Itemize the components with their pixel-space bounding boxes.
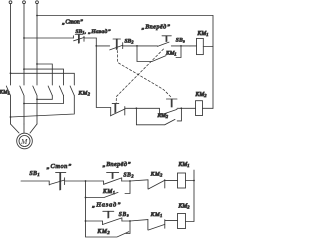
wire motor merge mid xyxy=(23,124,25,133)
wire motor merge left xyxy=(11,124,20,133)
button SB3 bottom (NO) xyxy=(102,221,104,225)
svg-text:„Вперёд”: „Вперёд” xyxy=(142,23,171,30)
svg-text:SВз: SВз xyxy=(119,212,130,218)
aux contact KM2 bottom parallel xyxy=(86,221,131,237)
wire branch B to KM2 pole2 xyxy=(24,69,64,85)
svg-text:КМ2: КМ2 xyxy=(97,229,111,235)
phase terminal L1 xyxy=(9,1,12,4)
interlock KM1 NC bottom row2 xyxy=(130,220,148,221)
coil KM1 xyxy=(197,38,204,54)
svg-text:КМ2: КМ2 xyxy=(157,113,168,119)
svg-text:SВ2: SВ2 xyxy=(124,172,135,178)
wire row A start xyxy=(96,45,109,47)
wire KM2 pole3 crossover to phase A xyxy=(11,96,75,118)
contactor KM1 pole 1 xyxy=(6,86,10,124)
wire KM2 pole2 crossover to phase B xyxy=(24,96,64,104)
svg-text:КМ2: КМ2 xyxy=(195,92,208,98)
wire bottom left rail xyxy=(85,198,87,222)
wire phase A vertical xyxy=(10,4,12,85)
wire branch C to KM2 pole1 xyxy=(37,64,52,85)
wire SB1 bottom to node xyxy=(65,180,86,182)
contactor KM2 pole 2 xyxy=(59,86,63,96)
node branch A xyxy=(10,72,12,74)
svg-text:„Стоп”: „Стоп” xyxy=(62,20,84,26)
svg-text:SВ1, „Назад”: SВ1, „Назад” xyxy=(76,28,111,35)
wire phase C vertical xyxy=(36,4,38,85)
phase terminal L2 xyxy=(23,1,26,4)
wire to SB3 xyxy=(137,45,158,47)
wire phase B vertical xyxy=(23,4,25,85)
node bottom rail row2 xyxy=(85,220,87,222)
contactor KM2 pole 3 xyxy=(70,86,74,96)
wire SB2 bottom to node xyxy=(122,180,130,182)
svg-text:SВ1: SВ1 xyxy=(30,171,41,177)
phase terminal L3 xyxy=(36,1,39,4)
node KM2 aux right xyxy=(180,107,182,109)
wire to SB2 bottom xyxy=(86,180,104,182)
wire row B middle xyxy=(125,107,160,109)
interlock KM2 NC bottom row1 xyxy=(130,180,148,181)
contactor KM1 pole 3 xyxy=(33,86,37,124)
dashed link SB2 to row B right button xyxy=(117,51,171,98)
node bottom row1 left xyxy=(85,180,87,182)
wire interlock to coil KM1 xyxy=(165,179,178,181)
svg-text:SВ2: SВ2 xyxy=(125,39,134,45)
motor M xyxy=(17,133,33,149)
wire interlock to coil KM2 xyxy=(165,219,178,221)
wire SB1 feed xyxy=(24,37,73,39)
button SB2 bottom (NO) xyxy=(103,181,105,184)
button SB2 (NC contact, row A) xyxy=(113,38,121,40)
svg-text:КМ1: КМ1 xyxy=(165,51,176,57)
wire top rail to control xyxy=(37,15,213,17)
node right rail bottom xyxy=(193,180,195,182)
aux contact KM1 bottom parallel xyxy=(86,181,131,198)
aux contact KM1 parallel branch xyxy=(137,46,181,62)
svg-text:„Вперёд”: „Вперёд” xyxy=(103,161,132,168)
node bottom rail loop1 xyxy=(85,197,87,199)
contactor KM1 pole 2 xyxy=(20,86,24,124)
svg-text:КМ2: КМ2 xyxy=(178,204,191,210)
wire row1 start xyxy=(21,180,49,182)
wire SB3 to coil xyxy=(171,45,190,47)
button SB1 bottom (NC) xyxy=(48,181,50,185)
node crossover B xyxy=(23,103,25,105)
svg-text:КМ1: КМ1 xyxy=(102,189,115,195)
button row B left (NC contact of Vpered) xyxy=(110,108,112,116)
node branch C xyxy=(36,63,38,65)
svg-text:„Назад”: „Назад” xyxy=(92,202,121,209)
wire KM2 pole1 crossover to phase C xyxy=(37,96,52,100)
dashed link SB3 to row B left button xyxy=(116,49,163,103)
svg-text:КМ1: КМ1 xyxy=(178,162,190,168)
node SB3 right xyxy=(180,45,182,47)
button SB3 (NO contact, row A) xyxy=(162,35,171,37)
wire branch A to KM2 pole3 xyxy=(11,73,75,85)
node SB1 feed xyxy=(23,37,25,39)
button SB1 (stop, NC) xyxy=(72,36,74,38)
node row A tap xyxy=(95,45,97,47)
wire motor merge right xyxy=(30,124,37,133)
node KM2 aux left xyxy=(136,107,138,109)
coil KM2 xyxy=(196,101,203,116)
svg-text:„Стоп”: „Стоп” xyxy=(47,163,72,170)
aux contact KM2 parallel branch xyxy=(136,108,181,125)
svg-text:М: М xyxy=(20,137,28,146)
wire right rail bottom xyxy=(186,170,195,222)
coil KM2 bottom xyxy=(178,214,186,229)
node bottom row1 right xyxy=(129,180,131,182)
svg-text:КМ1: КМ1 xyxy=(197,31,209,37)
node SB3 left xyxy=(136,45,138,47)
coil KM1 bottom xyxy=(178,173,186,188)
wire SB1 to rail xyxy=(84,37,96,39)
svg-text:SВз: SВз xyxy=(176,38,185,44)
contactor KM2 pole 1 xyxy=(48,86,52,96)
button row B right (NO contact of Nazad) xyxy=(158,108,160,115)
wire right rail xyxy=(212,16,214,109)
node bottom row2 right xyxy=(129,220,131,222)
node crossover A xyxy=(10,116,12,118)
wire row2 start xyxy=(86,220,103,222)
node crossover C xyxy=(36,98,38,100)
svg-text:КМ2: КМ2 xyxy=(78,91,91,97)
wire control left rail xyxy=(96,38,110,108)
node branch B xyxy=(23,68,25,70)
node top rail xyxy=(36,15,38,17)
svg-text:КМ1: КМ1 xyxy=(150,212,163,218)
wire SB2 to node xyxy=(123,45,137,47)
wire row B to coil xyxy=(177,107,196,109)
wire SB3 bottom to node xyxy=(122,220,130,222)
svg-text:КМ2: КМ2 xyxy=(150,171,163,177)
